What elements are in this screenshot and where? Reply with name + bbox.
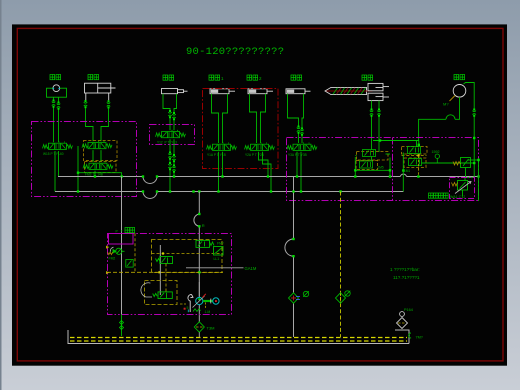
gray drop x160 (159, 245, 161, 295)
wire pilot line y163 (422, 162, 475, 164)
wire diamond to tank (198, 332, 200, 337)
svg-text:1M1: 1M1 (404, 169, 410, 173)
svg-text:7M?: 7M? (416, 336, 423, 340)
wire valve 2 to buses (259, 152, 272, 192)
wire M2 down (372, 101, 380, 152)
coupling pair cooler (473, 109, 476, 117)
yellow box2 (145, 281, 178, 305)
yellow link v1 v2 (165, 264, 167, 292)
relief valve RV1 (453, 158, 479, 179)
svg-text:1 ????1??bar:: 1 ????1??bar: (390, 267, 420, 272)
wire pilot line FL (78, 173, 122, 177)
pressure gauge (435, 154, 439, 163)
bus1 gray return line (58, 174, 479, 183)
yellow drop to bus1 (417, 155, 419, 177)
coupling pair C3 (168, 110, 171, 118)
wire cooler top (464, 83, 475, 139)
green W mark pump (193, 309, 201, 312)
wire main line in block (198, 282, 200, 297)
yellow box1 (152, 240, 223, 273)
gray hook v2 (141, 283, 152, 297)
filter diamond x199 tank (194, 322, 204, 332)
wire drop x122 (121, 176, 123, 314)
cylinder C4 boom1 (210, 89, 235, 94)
label boom cylinder 2 (247, 75, 262, 81)
wire C3 down (163, 94, 177, 131)
motor M1 swing (47, 85, 67, 97)
green dot main line y272 (198, 271, 200, 273)
label travel cylinder (88, 75, 99, 80)
wire C4 to valve 1 (212, 94, 228, 143)
throttle box right (214, 247, 224, 256)
svg-text:R: R (202, 223, 205, 228)
yellow dashed vertical x135 (134, 233, 136, 272)
svg-text:90-120?????????: 90-120????????? (186, 46, 284, 58)
svg-text:FM?: FM? (217, 242, 224, 246)
coupling pairs C3 lower (168, 152, 171, 160)
magenta box pilot block (108, 234, 232, 315)
pump shaft green (203, 299, 212, 304)
svg-text:1.M: 1.M (205, 310, 211, 314)
label bucket cylinder (163, 75, 174, 80)
yellow dot y272 (158, 271, 160, 273)
long boom cylinder striped (325, 87, 373, 94)
spec text right (390, 267, 420, 280)
hop dots x293 (292, 190, 294, 257)
wire valve A to buses (55, 151, 59, 192)
svg-text:P T: P T (116, 230, 123, 234)
svg-text:P164: P164 (404, 308, 413, 312)
valve C (83, 162, 113, 169)
magenta box pump group right (287, 138, 479, 201)
label boom cylinder 1 (209, 75, 224, 81)
valve travel row2 (360, 161, 373, 168)
orange box travel valve row1 (357, 152, 389, 161)
tank left wall (68, 330, 409, 344)
orange box valve C (85, 162, 117, 173)
svg-text:5: 5 (187, 306, 189, 310)
label travel motor (362, 75, 373, 80)
wire cluster2 to bus2 end (402, 169, 404, 192)
small diamonds x122 (120, 321, 124, 330)
wire cluster1 top link (373, 140, 419, 142)
orange box travel valve row2 (356, 161, 378, 170)
magenta box pilot valve (150, 125, 195, 145)
magenta sub box top-left (109, 234, 134, 245)
green mark tank right (409, 333, 412, 338)
breather diamond (397, 312, 408, 329)
svg-text:WA1 C12: WA1 C12 (450, 195, 465, 199)
dot pilot elbow (77, 172, 79, 174)
svg-text:M?: M? (443, 102, 449, 107)
yellow inner dashed y253 (152, 253, 223, 255)
junction dots right (473, 137, 480, 164)
magenta divider pump group (392, 138, 394, 201)
dot cluster2 feed (418, 144, 420, 146)
dot cluster1 top (379, 139, 381, 141)
wire valve D down couplings (170, 139, 174, 191)
label swing motor (50, 75, 61, 80)
svg-text:1M5: 1M5 (378, 166, 384, 170)
valve A (43, 142, 73, 149)
cylinder C3 bucket (162, 89, 188, 94)
wire C2 to valve B (86, 108, 109, 141)
solenoid valve v1 (156, 257, 173, 264)
anti-void valve (452, 181, 468, 197)
wire C5 to valve 2 (250, 94, 266, 143)
svg-text:FM2: FM2 (109, 257, 116, 261)
svg-text:1592: 1592 (432, 150, 440, 154)
wire cooler bottom with hop (419, 97, 460, 140)
solenoid valve v2 (153, 292, 173, 299)
gray arc pilot pump (110, 247, 113, 252)
svg-text:LL1: LL1 (214, 257, 220, 261)
gray arrow anti-void (455, 182, 471, 194)
wire travel valves down (355, 154, 390, 177)
coupling pair M2 (370, 109, 373, 117)
cylinder C2 travel (85, 83, 116, 100)
magenta box anti-void valve (450, 178, 475, 199)
pilot pump symbol (108, 248, 125, 254)
coupling pair M1 (52, 100, 55, 108)
valve D pilot (156, 130, 186, 137)
svg-text:Y2A P T Y2B: Y2A P T Y2B (245, 153, 264, 157)
tank yellow lines (70, 338, 407, 342)
valve travel row1 (363, 150, 376, 157)
wire cluster2 left drop (402, 153, 404, 172)
bus2 gray return line (55, 192, 404, 199)
junction dots bus2 (77, 190, 342, 192)
solenoid valve v3 top (196, 240, 214, 247)
orange box main valve row1 (402, 147, 428, 155)
engine fan white (188, 294, 193, 312)
junction dots bus1 (94, 175, 480, 177)
wire motor M1 ports (54, 97, 59, 142)
olive link row1 row2 (402, 154, 427, 156)
wire cluster2 feeds (417, 141, 419, 147)
wire valve 3 to buses (297, 152, 301, 192)
olive marks pump (180, 303, 210, 315)
gray line GA1M (186, 267, 244, 269)
wire drop x199 with hop (194, 192, 199, 323)
filter diamond x293 (289, 293, 301, 303)
wire valve 1 to buses (219, 152, 223, 192)
olive arrows left edge (106, 246, 109, 275)
filter diamond x340 (336, 293, 346, 303)
dots cluster1 (354, 169, 391, 171)
svg-text:T3M: T3M (207, 326, 215, 331)
yellow dot y253 (162, 252, 164, 254)
cooler drive line M (443, 96, 455, 107)
wire valve B to C (78, 146, 101, 192)
orange box main valve row2 (404, 158, 426, 168)
svg-text:W15 P T FL60: W15 P T FL60 (43, 152, 64, 156)
wire right edge vertical (465, 138, 479, 201)
wire drop x293 with hop (285, 176, 294, 337)
cyan tick engine (187, 310, 189, 313)
glyphs above block (125, 228, 135, 233)
cylinder C6 arm (286, 89, 311, 94)
motor stack M2 (368, 83, 389, 100)
wire valve C to bus1 (94, 171, 96, 177)
pump circle x306 (303, 291, 309, 297)
red dashed box boom cylinders (203, 89, 279, 169)
magenta box left valve group (32, 122, 137, 197)
cooler fan circle (453, 85, 466, 98)
yellow pilot drop x340 (340, 192, 342, 338)
cylinder C5 boom2 (248, 89, 273, 94)
label cooler (454, 75, 465, 80)
coupling ring cyan red center (213, 298, 219, 304)
svg-text:Y1A P T Y1B: Y1A P T Y1B (207, 153, 226, 157)
svg-text:11?.?1????1: 11?.?1????1 (393, 275, 420, 280)
pump circle x347 (345, 291, 351, 297)
label anti-void group (429, 193, 466, 199)
yellow dashed crossline y272 (107, 271, 223, 273)
svg-text:GA1M: GA1M (245, 266, 257, 271)
coupling pair C6 (297, 126, 300, 134)
coupling pair C2 (84, 100, 87, 108)
valve main row1 (408, 147, 421, 154)
valve B (82, 141, 112, 148)
valve 1 boom (207, 143, 237, 150)
main pump circle cyan (193, 294, 206, 308)
red dot engine (184, 308, 186, 310)
valve 3 arm (287, 143, 317, 150)
background left edge shade (0, 0, 2, 390)
valve main row2 (409, 159, 422, 166)
small green box x129 (126, 260, 133, 268)
label arm cylinder (291, 75, 302, 80)
wire x122 to tank (121, 315, 123, 337)
orange box valve B (84, 141, 118, 161)
wire C6 down (288, 94, 304, 143)
hop dots x199 (198, 213, 200, 228)
valve 2 boom (245, 143, 275, 150)
red drawing frame (17, 28, 503, 361)
